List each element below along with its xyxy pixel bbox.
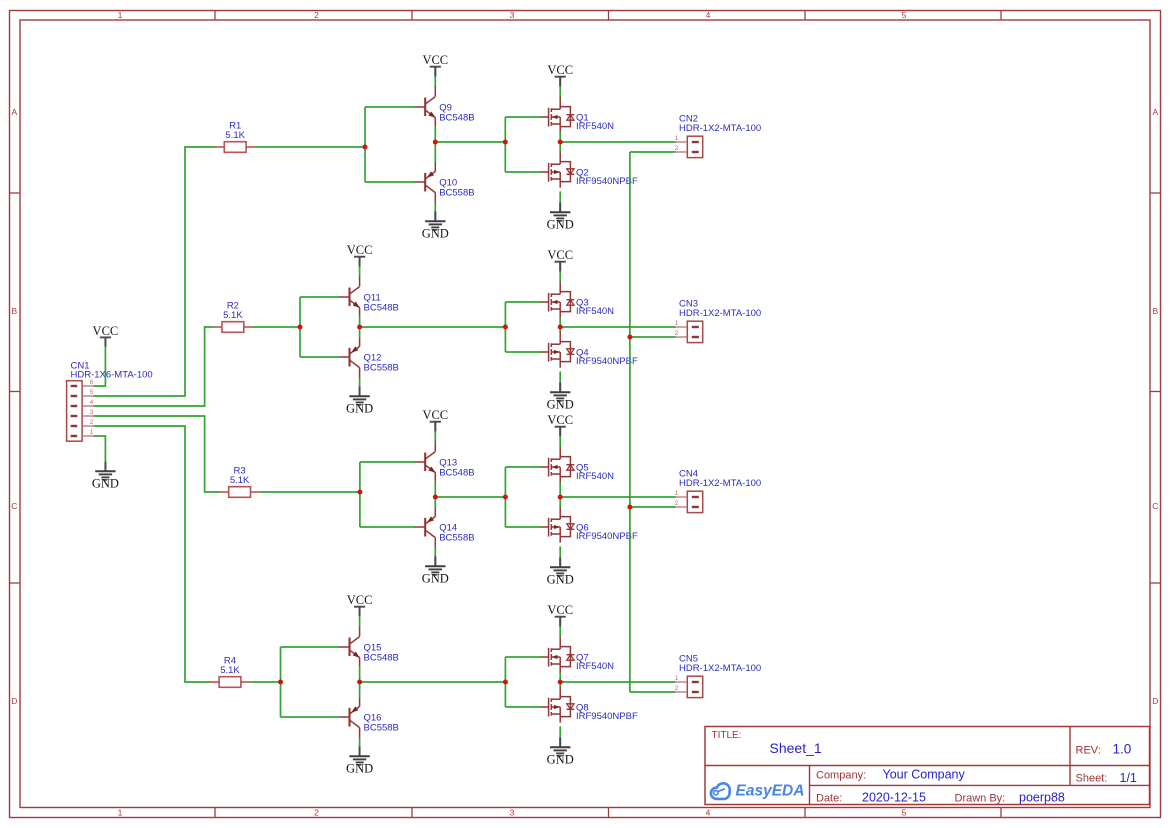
svg-text:3: 3 [510, 10, 515, 20]
junction node output [558, 325, 563, 330]
wire gray stub [434, 556, 436, 566]
transistor Q16 [340, 698, 360, 738]
svg-text:5: 5 [902, 10, 907, 20]
wire CN1 pin4 to R2 [94, 327, 214, 406]
wire to NPN base [281, 646, 341, 648]
wire base bus vertical [364, 107, 366, 182]
label R2 value [223, 300, 243, 321]
label Q10 [439, 178, 474, 199]
junction node CN3 pin2 [627, 335, 632, 340]
transistor Q15 [340, 627, 360, 667]
wire gray stub [434, 422, 436, 432]
resistor R2 [213, 322, 253, 333]
wire base bus vertical [359, 462, 361, 527]
ground GND (Q2) [547, 203, 574, 232]
wire gray stub [559, 77, 561, 87]
resistor R3 [220, 487, 260, 498]
svg-text:A: A [11, 107, 17, 117]
transistor Q10 [415, 163, 435, 203]
connector CN4 [676, 491, 703, 512]
svg-text:1: 1 [118, 808, 123, 818]
svg-text:BC548B: BC548B [439, 113, 474, 124]
svg-text:2: 2 [675, 685, 679, 692]
svg-text:VCC: VCC [547, 413, 573, 427]
CN1 pin numbers [90, 379, 94, 436]
wire CN1 pin5 to R1 [94, 147, 216, 396]
svg-text:GND: GND [346, 762, 373, 776]
svg-text:1: 1 [675, 320, 679, 327]
svg-text:VCC: VCC [422, 53, 448, 67]
svg-text:5.1K: 5.1K [220, 665, 240, 676]
svg-text:IRF540N: IRF540N [576, 121, 614, 132]
svg-text:IRF540N: IRF540N [576, 306, 614, 317]
svg-text:GND: GND [422, 572, 449, 586]
connector CN5 [676, 676, 703, 697]
wire CN5 pin2 [630, 691, 676, 693]
wire PNP collector to GND [359, 738, 361, 747]
wire to PNP base [300, 356, 340, 358]
title block Company [816, 768, 965, 782]
wire output to gate node [360, 681, 506, 683]
label Q6 [576, 523, 638, 542]
wire emitter to output node [434, 481, 436, 497]
svg-text:Company:: Company: [816, 770, 866, 782]
wire gray stub [434, 67, 436, 77]
wire gate bus vertical [504, 302, 506, 352]
svg-text:3: 3 [510, 808, 515, 818]
wire to P-FET gate [505, 706, 541, 708]
MOSFET Q4 [541, 332, 574, 368]
svg-text:GND: GND [346, 402, 373, 416]
svg-text:Sheet:: Sheet: [1076, 773, 1108, 785]
svg-text:1/1: 1/1 [1120, 771, 1137, 785]
junction node output [558, 495, 563, 500]
label Q14 [439, 523, 474, 544]
wire emitter junction down [359, 327, 361, 338]
CN3 pin numbers [675, 320, 679, 337]
svg-text:3: 3 [90, 409, 94, 416]
wire drain to VCC [559, 436, 561, 447]
ground GND (CN1 pin 1) [92, 462, 119, 491]
power flag VCC (Q9) [422, 53, 448, 76]
label Q5 [576, 463, 614, 482]
transistor Q14 [415, 508, 435, 548]
junction node output [558, 680, 563, 685]
EasyEDA logo [711, 783, 805, 800]
wire output to gate node [360, 326, 506, 328]
wire output to P-FET source [559, 682, 561, 688]
wire output to P-FET source [559, 142, 561, 153]
power flag VCC (Q5) [547, 413, 573, 436]
svg-text:1: 1 [675, 675, 679, 682]
svg-text:1: 1 [675, 135, 679, 142]
junction node output [558, 140, 563, 145]
svg-text:VCC: VCC [547, 248, 573, 262]
svg-text:EasyEDA: EasyEDA [736, 783, 805, 800]
wire N-FET source to output [559, 132, 561, 142]
svg-text:Sheet_1: Sheet_1 [770, 740, 822, 756]
wire gray stub [559, 202, 561, 212]
label R3 value [230, 465, 250, 486]
wire N-FET source to output [559, 317, 561, 327]
wire P-FET drain to GND [559, 546, 561, 557]
wire [94, 346, 106, 386]
wire to PNP base [360, 526, 416, 528]
svg-text:2: 2 [675, 145, 679, 152]
svg-text:BC558B: BC558B [364, 363, 399, 374]
wire output to P-FET source [559, 497, 561, 508]
svg-text:REV:: REV: [1076, 744, 1101, 756]
label R4 value [220, 655, 240, 676]
junction node emitters [433, 140, 438, 145]
svg-text:GND: GND [92, 477, 119, 491]
svg-text:IRF540N: IRF540N [576, 661, 614, 672]
connector CN1 [67, 381, 94, 442]
wire gate bus vertical [504, 657, 506, 707]
wire output to gate node [435, 496, 505, 498]
svg-text:HDR-1X2-MTA-100: HDR-1X2-MTA-100 [679, 478, 761, 489]
wire output to CN5 pin1 [560, 681, 675, 683]
svg-text:GND: GND [547, 398, 574, 412]
connector CN2 [676, 136, 703, 157]
wire gray stub [359, 607, 361, 617]
label Q13 [439, 458, 474, 479]
wire output to gate node [435, 141, 505, 143]
svg-text:BC558B: BC558B [439, 533, 474, 544]
ground GND (Q14) [422, 557, 449, 586]
power flag VCC (Q3) [547, 248, 573, 271]
svg-text:1: 1 [90, 429, 94, 436]
wire to N-FET gate [505, 301, 541, 303]
ground GND (Q6) [547, 558, 574, 587]
transistor Q12 [340, 338, 360, 378]
wire to PNP base [365, 181, 416, 183]
junction node emitters [433, 495, 438, 500]
label Q7 [576, 653, 614, 672]
svg-text:VCC: VCC [547, 63, 573, 77]
wire PNP collector to GND [359, 378, 361, 387]
svg-text:GND: GND [422, 227, 449, 241]
svg-text:HDR-1X6-MTA-100: HDR-1X6-MTA-100 [71, 370, 153, 381]
wire gray stub [359, 746, 361, 756]
wire P-FET drain to GND [559, 191, 561, 202]
svg-text:Drawn By:: Drawn By: [955, 793, 1006, 805]
wire CN2 pin2 [630, 151, 676, 153]
wire base bus vertical [280, 647, 282, 717]
wire to N-FET gate [505, 116, 542, 118]
junction node gates [503, 140, 508, 145]
title block REV [1076, 742, 1132, 757]
label Q16 [364, 713, 399, 734]
svg-text:VCC: VCC [93, 324, 119, 338]
transistor Q11 [340, 277, 360, 317]
label Q12 [364, 353, 399, 374]
label CN1 [71, 361, 153, 381]
wire resistor output [253, 326, 300, 328]
svg-text:HDR-1X2-MTA-100: HDR-1X2-MTA-100 [679, 663, 761, 674]
wire pin2 common bus [629, 152, 631, 692]
svg-text:BC558B: BC558B [364, 723, 399, 734]
power flag VCC (CN1 pin 6) [93, 324, 119, 347]
wire gray stub [559, 617, 561, 627]
svg-text:IRF9540NPBF: IRF9540NPBF [576, 531, 638, 542]
CN2 pin numbers [675, 135, 679, 152]
svg-text:5.1K: 5.1K [230, 475, 250, 486]
svg-text:GND: GND [547, 218, 574, 232]
junction node gates [503, 680, 508, 685]
junction node gates [503, 325, 508, 330]
wire emitter junction down [434, 497, 436, 508]
wire emitter to output node [359, 666, 361, 682]
wire gray stub [104, 462, 106, 472]
title block Sheet [1076, 771, 1137, 785]
label Q9 [439, 103, 474, 124]
wire to P-FET gate [505, 526, 541, 528]
title block frame [705, 727, 1150, 805]
transistor Q9 [415, 87, 435, 127]
label CN5 [679, 653, 761, 674]
svg-text:D: D [1152, 696, 1158, 706]
wire gray stub [559, 557, 561, 567]
svg-text:2: 2 [314, 10, 319, 20]
wire CN1 pin1 to GND [94, 436, 106, 462]
wire emitter junction down [359, 682, 361, 698]
label Q11 [364, 293, 399, 314]
svg-text:BC548B: BC548B [364, 303, 399, 314]
svg-text:poerp88: poerp88 [1019, 791, 1065, 805]
wire CN1 pin6 to VCC [104, 337, 106, 347]
wire drain to VCC [559, 86, 561, 97]
wire emitter to output node [359, 316, 361, 327]
ground GND (Q4) [547, 383, 574, 412]
junction node emitters [357, 680, 362, 685]
wire to P-FET gate [505, 171, 542, 173]
svg-text:2: 2 [675, 500, 679, 507]
label CN4 [679, 468, 761, 489]
MOSFET Q1 [541, 97, 574, 133]
svg-text:2: 2 [675, 330, 679, 337]
wire gray stub [359, 257, 361, 267]
label Q3 [576, 298, 614, 317]
junction node R2 out [298, 325, 303, 330]
svg-text:C: C [1152, 501, 1158, 511]
wire collector to VCC [434, 76, 436, 87]
wire to N-FET gate [505, 656, 541, 658]
svg-text:5: 5 [902, 808, 907, 818]
junction node CN4 pin2 [627, 505, 632, 510]
CN4 pin numbers [675, 490, 679, 507]
wire PNP collector to GND [434, 203, 436, 212]
wire to NPN base [365, 106, 416, 108]
wire resistor output [250, 681, 280, 683]
wire collector to VCC [359, 266, 361, 277]
svg-text:IRF9540NPBF: IRF9540NPBF [576, 176, 638, 187]
svg-text:HDR-1X2-MTA-100: HDR-1X2-MTA-100 [679, 123, 761, 134]
label CN2 [679, 113, 761, 133]
wire emitter junction down [434, 142, 436, 163]
title block Drawn By [955, 791, 1065, 805]
svg-text:VCC: VCC [547, 603, 573, 617]
label CN3 [679, 298, 761, 319]
wire gate bus vertical [504, 467, 506, 527]
wire drain to VCC [559, 271, 561, 282]
svg-text:5.1K: 5.1K [225, 130, 245, 141]
MOSFET Q2 [541, 152, 574, 188]
label Q2 [576, 168, 638, 187]
power flag VCC (Q13) [422, 408, 448, 431]
wire output to CN3 pin1 [560, 326, 675, 328]
title block Date [816, 791, 926, 805]
svg-text:1.0: 1.0 [1113, 742, 1132, 757]
svg-text:5: 5 [90, 389, 94, 396]
transistor Q13 [415, 442, 435, 482]
MOSFET Q3 [541, 282, 574, 318]
svg-text:GND: GND [547, 573, 574, 587]
wire gray stub [359, 386, 361, 396]
wire CN1 pin3 to R3 [94, 416, 221, 492]
svg-text:4: 4 [706, 10, 711, 20]
wire collector to VCC [434, 431, 436, 442]
wire N-FET source to output [559, 672, 561, 682]
wire gray stub [434, 211, 436, 221]
wire to NPN base [300, 296, 340, 298]
wire gray stub [559, 427, 561, 437]
wire PNP collector to GND [434, 548, 436, 557]
wire N-FET source to output [559, 482, 561, 497]
svg-text:VCC: VCC [347, 593, 373, 607]
power flag VCC (Q1) [547, 63, 573, 86]
wire P-FET drain to GND [559, 726, 561, 737]
wire emitter to output node [434, 126, 436, 142]
wire P-FET drain to GND [559, 371, 561, 382]
svg-text:2: 2 [90, 419, 94, 426]
CN5 pin numbers [675, 675, 679, 692]
svg-text:C: C [11, 501, 17, 511]
label Q4 [576, 348, 638, 367]
junction node R1 out [363, 145, 368, 150]
svg-text:4: 4 [706, 808, 711, 818]
power flag VCC (Q7) [547, 603, 573, 626]
svg-text:IRF540N: IRF540N [576, 471, 614, 482]
wire to N-FET gate [505, 466, 541, 468]
ground GND (Q10) [422, 212, 449, 241]
svg-text:Date:: Date: [816, 793, 842, 805]
MOSFET Q7 [541, 637, 574, 673]
label Q8 [576, 703, 638, 722]
wire CN4 pin2 [630, 506, 676, 508]
svg-text:2: 2 [314, 808, 319, 818]
svg-text:2020-12-15: 2020-12-15 [862, 791, 926, 805]
wire to PNP base [281, 716, 341, 718]
power flag VCC (Q11) [347, 243, 373, 266]
wire CN3 pin2 [630, 336, 676, 338]
MOSFET Q6 [541, 507, 574, 543]
ground GND (Q16) [346, 747, 373, 776]
wire output to P-FET source [559, 327, 561, 333]
MOSFET Q8 [541, 687, 574, 723]
svg-text:BC548B: BC548B [364, 653, 399, 664]
svg-text:4: 4 [90, 399, 94, 406]
svg-text:IRF9540NPBF: IRF9540NPBF [576, 711, 638, 722]
svg-text:1: 1 [118, 10, 123, 20]
wire base bus vertical [299, 297, 301, 357]
svg-text:HDR-1X2-MTA-100: HDR-1X2-MTA-100 [679, 308, 761, 319]
svg-text:TITLE:: TITLE: [712, 730, 742, 741]
wire gray stub [559, 382, 561, 392]
svg-text:5.1K: 5.1K [223, 310, 243, 321]
MOSFET Q5 [541, 447, 574, 483]
svg-text:Your Company: Your Company [883, 768, 966, 782]
wire gray stub [559, 737, 561, 747]
svg-text:1: 1 [675, 490, 679, 497]
wire resistor output [260, 491, 360, 493]
svg-text:D: D [11, 696, 17, 706]
wire to NPN base [360, 461, 416, 463]
ground GND (Q12) [346, 387, 373, 416]
svg-text:GND: GND [547, 753, 574, 767]
wire gate bus vertical [504, 117, 506, 172]
power flag VCC (Q15) [347, 593, 373, 616]
svg-text:VCC: VCC [347, 243, 373, 257]
label Q1 [576, 113, 614, 132]
wire drain to VCC [559, 626, 561, 637]
svg-text:B: B [11, 306, 17, 316]
resistor R1 [215, 142, 255, 153]
wire resistor output [255, 146, 365, 148]
label Q15 [364, 643, 399, 664]
svg-text:B: B [1152, 306, 1158, 316]
junction node emitters [357, 325, 362, 330]
wire CN1 pin2 to R4 [94, 426, 211, 682]
junction node R3 out [357, 490, 362, 495]
wire collector to VCC [359, 616, 361, 627]
svg-text:A: A [1152, 107, 1158, 117]
svg-text:VCC: VCC [422, 408, 448, 422]
junction node R4 out [278, 680, 283, 685]
svg-text:IRF9540NPBF: IRF9540NPBF [576, 356, 638, 367]
connector CN3 [676, 321, 703, 342]
label R1 value [225, 120, 245, 141]
wire gray stub [559, 262, 561, 272]
wire output to CN4 pin1 [560, 496, 675, 498]
wire to P-FET gate [505, 351, 541, 353]
resistor R4 [210, 677, 250, 688]
svg-text:BC548B: BC548B [439, 468, 474, 479]
ground GND (Q8) [547, 738, 574, 767]
svg-text:BC558B: BC558B [439, 188, 474, 199]
wire output to CN2 pin1 [560, 141, 675, 143]
junction node gates [503, 495, 508, 500]
